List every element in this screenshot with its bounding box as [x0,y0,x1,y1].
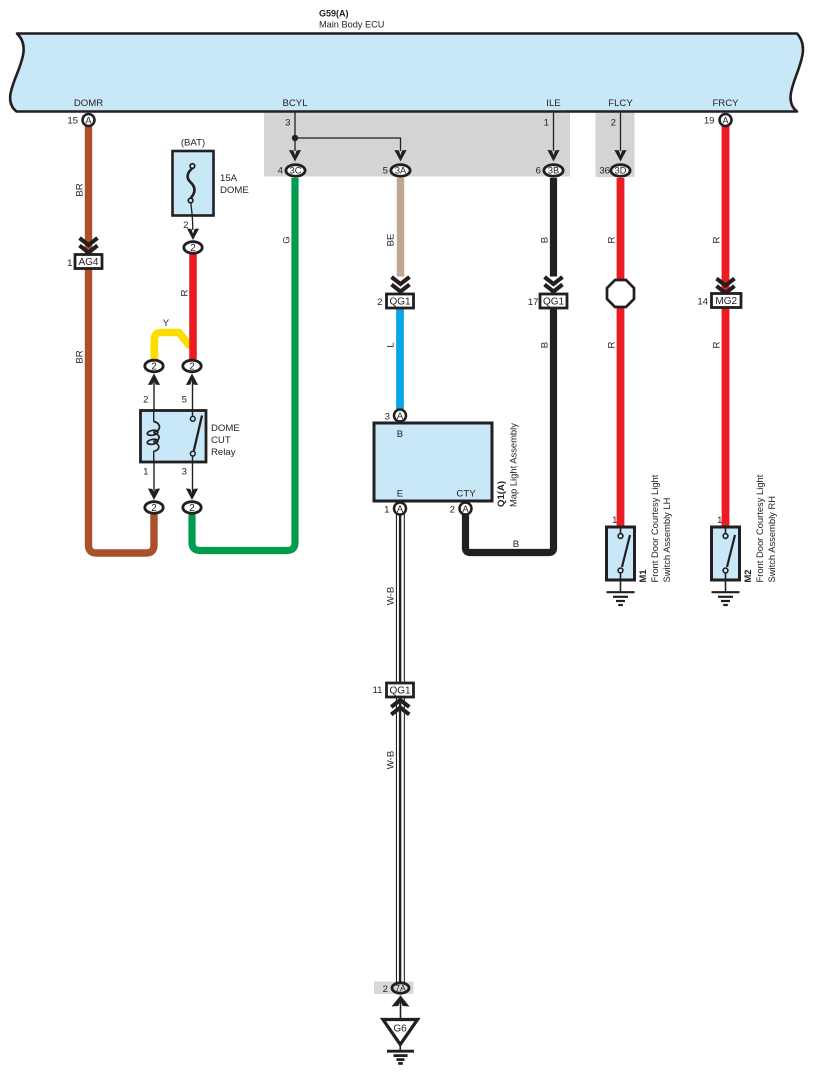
svg-text:BR: BR [75,350,86,363]
svg-text:Map Light Assembly: Map Light Assembly [508,423,519,507]
svg-text:QG1: QG1 [389,297,411,308]
svg-text:19: 19 [704,116,715,127]
svg-text:R: R [712,236,723,243]
svg-text:FLCY: FLCY [608,98,633,109]
svg-text:2: 2 [611,118,616,129]
svg-text:QG1: QG1 [543,297,565,308]
svg-text:BCYL: BCYL [282,98,308,109]
svg-text:MG2: MG2 [715,296,737,307]
svg-text:BE: BE [386,234,397,247]
svg-text:2: 2 [183,220,188,231]
svg-text:M2: M2 [742,569,753,582]
svg-text:5: 5 [383,166,388,177]
svg-text:DOMR: DOMR [74,98,103,109]
svg-text:B: B [397,429,403,440]
svg-text:1: 1 [384,505,389,516]
svg-text:3: 3 [285,118,290,129]
svg-text:R: R [180,289,191,296]
svg-text:1: 1 [143,467,148,478]
svg-text:Main Body ECU: Main Body ECU [319,20,384,30]
svg-text:B: B [513,539,519,550]
svg-text:BR: BR [75,183,86,196]
svg-text:CUT: CUT [211,435,231,446]
svg-text:Y: Y [163,318,170,329]
svg-text:R: R [607,236,618,243]
svg-text:DOME: DOME [220,185,249,196]
svg-text:L: L [386,342,397,348]
svg-text:G: G [282,236,293,243]
svg-text:ILE: ILE [546,98,560,109]
svg-text:3C: 3C [290,166,302,176]
svg-text:17: 17 [528,297,539,308]
svg-text:2: 2 [143,395,148,406]
svg-text:1: 1 [67,258,72,269]
svg-text:4: 4 [278,166,284,177]
svg-text:Relay: Relay [211,447,236,458]
svg-text:3: 3 [182,467,187,478]
svg-text:15: 15 [67,116,78,127]
svg-text:Switch Assembly RH: Switch Assembly RH [766,496,777,582]
svg-text:7A: 7A [395,983,406,993]
svg-text:2: 2 [450,505,455,516]
svg-text:6: 6 [536,166,541,177]
svg-text:E: E [397,489,403,500]
svg-text:FRCY: FRCY [712,98,739,109]
svg-text:15A: 15A [220,173,238,184]
svg-text:R: R [607,341,618,348]
svg-text:36: 36 [599,166,610,177]
svg-text:B: B [540,342,551,348]
svg-text:3A: 3A [395,166,407,176]
svg-text:11: 11 [373,685,383,696]
svg-text:3B: 3B [548,166,559,176]
svg-text:G59(A): G59(A) [319,9,349,19]
svg-text:1: 1 [544,118,549,129]
svg-text:Switch Assembly LH: Switch Assembly LH [661,498,672,583]
svg-text:M1: M1 [637,569,648,582]
svg-text:2: 2 [377,297,382,308]
svg-text:R: R [712,341,723,348]
svg-text:W-B: W-B [386,751,397,769]
svg-text:1: 1 [612,515,617,526]
svg-text:AG4: AG4 [78,257,98,268]
svg-text:B: B [540,237,551,243]
svg-text:14: 14 [697,297,708,308]
svg-text:G6: G6 [393,1024,407,1035]
svg-text:1: 1 [717,515,722,526]
svg-text:2: 2 [383,984,388,995]
svg-text:5: 5 [182,395,187,406]
svg-text:(BAT): (BAT) [181,138,205,149]
svg-text:3: 3 [385,412,390,423]
svg-text:3D: 3D [615,166,627,176]
svg-text:QG1: QG1 [389,686,411,697]
svg-text:Front Door Courtesy Light: Front Door Courtesy Light [649,474,660,582]
svg-text:CTY: CTY [456,489,476,500]
svg-text:W-B: W-B [386,587,397,605]
svg-text:Q1(A): Q1(A) [496,481,507,507]
svg-text:Front Door Courtesy Light: Front Door Courtesy Light [754,474,765,582]
svg-text:DOME: DOME [211,423,240,434]
